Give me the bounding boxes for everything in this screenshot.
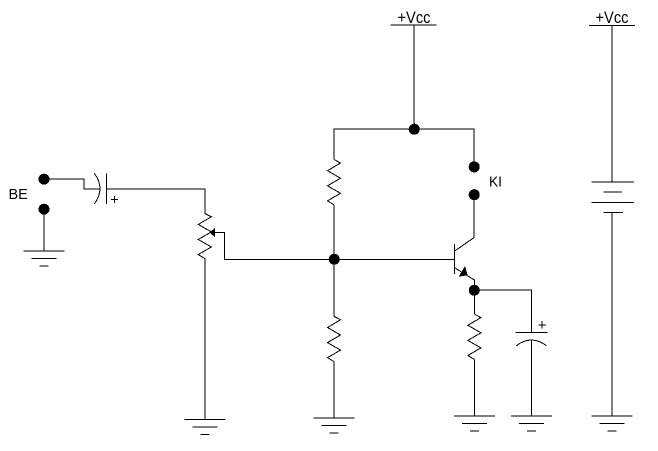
power rail bar (left Vcc) [390, 24, 436, 26]
wire KI bottom to collector [455, 200, 474, 251]
capacitor C1 curved plate [94, 173, 100, 204]
ground (battery) [591, 416, 632, 431]
node base junction [329, 254, 340, 265]
wire BE bottom terminal to ground [43, 213, 45, 251]
resistor R3 [468, 314, 481, 359]
battery B1 [591, 182, 634, 212]
wire Vcc to battery [611, 25, 613, 182]
capacitor C2 straight plate [516, 332, 548, 334]
transistor Q1 emitter arrow [460, 267, 467, 276]
ground (BE) [23, 251, 64, 266]
svg-text:BE: BE [9, 187, 29, 203]
node emitter junction [469, 285, 480, 296]
wire Vcc to top rail [413, 25, 415, 129]
potentiometer P1 [198, 214, 211, 259]
svg-text:+Vcc: +Vcc [596, 9, 629, 27]
wire C2 to ground [530, 341, 532, 416]
node KI terminal top [469, 161, 480, 172]
wire emitter to R3 [473, 290, 475, 314]
ground (C2) [511, 416, 552, 431]
node BE terminal bottom [39, 204, 50, 215]
wire R2 to ground [333, 362, 335, 418]
wire potentiometer bottom to ground [204, 259, 206, 420]
capacitor C2 curved plate [516, 340, 546, 346]
svg-text:KI: KI [489, 173, 502, 190]
transistor Q1 base bar [454, 244, 456, 274]
capacitor C1 straight plate [106, 173, 108, 204]
wire BE top terminal to capacitor C1 [48, 179, 99, 189]
wire emitter junction to C2 [479, 290, 531, 332]
power rail bar (right Vcc) [589, 24, 635, 26]
wire battery to ground [611, 212, 613, 415]
wire junction to R2 [333, 259, 335, 316]
wire R1 to junction [333, 205, 335, 259]
potentiometer wiper arrow [211, 229, 215, 236]
node BE terminal top [39, 174, 50, 185]
wire base [334, 258, 455, 260]
resistor R2 [328, 316, 341, 361]
node KI terminal bottom [469, 189, 480, 200]
transistor Q1 emitter [455, 268, 474, 285]
resistor R1 [328, 160, 341, 205]
wire wiper to base line [215, 232, 335, 259]
label + (C2 polarity) [538, 321, 546, 328]
label + (C1 polarity) [111, 196, 118, 203]
ground (potentiometer) [184, 419, 225, 434]
wire top rail [334, 129, 474, 162]
node Vcc junction [409, 124, 420, 135]
ground (R2) [314, 418, 355, 433]
ground (R3) [454, 416, 495, 431]
wire C1 to potentiometer [107, 189, 205, 214]
wire R3 to ground [473, 359, 475, 415]
